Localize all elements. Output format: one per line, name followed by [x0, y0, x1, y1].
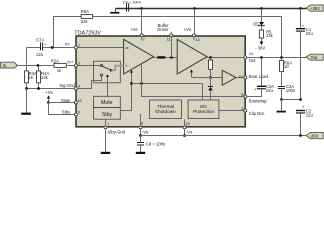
node junction rail to pin13 [193, 7, 196, 10]
wire signal ground line to pin 4 [27, 83, 76, 89]
capacitor C8 100n [137, 136, 166, 152]
node In- junction [51, 46, 54, 49]
svg-text:-Vs: -Vs [142, 129, 148, 134]
S/C protection block [188, 100, 219, 119]
svg-text:22u: 22u [266, 88, 274, 93]
svg-text:22k: 22k [41, 75, 49, 80]
wire buffer output to power amp [154, 57, 178, 59]
buffer driver series element [157, 56, 165, 58]
wire output line [247, 57, 305, 59]
label Stby [62, 109, 71, 114]
svg-text:Stby: Stby [102, 112, 113, 118]
svg-text:100n: 100n [286, 88, 296, 93]
node junction rail to D5 [260, 7, 263, 10]
svg-text:In-: In- [65, 42, 70, 47]
svg-text:R9A: R9A [81, 9, 89, 14]
svg-text:- 36V: - 36V [255, 46, 265, 51]
node supply cap midpoint [299, 98, 302, 101]
svg-text:22k: 22k [266, 33, 274, 38]
capacitor C7A 22u [36, 38, 47, 58]
wire stby line to pin 9 [49, 103, 76, 115]
svg-text:-36V: -36V [310, 134, 319, 139]
svg-text:C8 = 100n: C8 = 100n [146, 142, 166, 147]
svg-text:TDA7293V: TDA7293V [74, 30, 101, 36]
svg-text:6: 6 [241, 92, 243, 97]
svg-text:Sig-Gnd: Sig-Gnd [59, 83, 75, 88]
connector In [1, 62, 18, 68]
pin 7 +Vs (top) [130, 27, 145, 41]
wire rail to pin 13 +Vs [194, 9, 196, 35]
op-amp U2 power amplifier [177, 39, 207, 74]
wire mute line to pin 10 [49, 102, 76, 104]
feedback wire from Out to R9A and In- [54, 17, 282, 58]
wire C1 to mid ground node [300, 32, 302, 100]
capacitor C2A 22u (bootstrap) [247, 58, 274, 97]
svg-text:Driver: Driver [157, 27, 169, 32]
svg-text:22u: 22u [306, 31, 314, 36]
svg-text:Out: Out [249, 58, 257, 63]
svg-text:Shutdown: Shutdown [155, 109, 176, 114]
wire bias tap to buffer and bootstrap line [142, 64, 246, 97]
svg-text:C6 + 100n: C6 + 100n [123, 0, 141, 5]
wire pin 11 to buffer output [171, 37, 173, 57]
connector -36V [306, 132, 323, 138]
node R4A foot [37, 87, 40, 90]
op-amp IC body TDA7293V [76, 36, 245, 127]
wire C7A branch down to R3A (crosses input line) [26, 48, 28, 71]
node pin 15 to -Vs rail [183, 134, 186, 137]
power flag +Vs (mute/stby pull-up) [45, 90, 52, 102]
svg-text:3: 3 [78, 60, 80, 65]
node output to bootstrap cap [260, 56, 263, 59]
stby switch S2 [101, 74, 103, 76]
svg-text:11: 11 [167, 37, 171, 42]
ground (pin 8 decoupling) [136, 152, 145, 154]
wire stby block to bias rail [120, 70, 133, 111]
pin 15 -Vs (bottom) [183, 119, 192, 135]
label Out (pin) [249, 58, 257, 63]
svg-text:Mute: Mute [101, 100, 113, 106]
svg-text:+Vs: +Vs [45, 90, 52, 95]
capacitor C3A 100n (zobel) [278, 72, 296, 100]
svg-text:C7A: C7A [36, 38, 44, 43]
op-amp U3 bootstrap buffer [211, 70, 236, 85]
resistor R5 22k [259, 29, 273, 38]
thermal shutdown block [150, 100, 182, 119]
node internal sense junction [209, 76, 212, 79]
resistor R3A 1k [25, 71, 37, 83]
capacitor C1 22u [296, 23, 314, 36]
node junction rail to C1 [299, 7, 302, 10]
stby block [94, 108, 121, 120]
op-amp U1 input buffer [124, 39, 154, 74]
ground (C6 decoupling) [110, 9, 119, 14]
wire D5 to R5 [261, 26, 263, 30]
svg-text:D5: D5 [253, 21, 259, 26]
ground (zobel/supply) [277, 100, 286, 113]
label Sig-Gnd [59, 83, 75, 88]
wire S/C block to pin 5 [219, 110, 245, 112]
pin 10 Mute [74, 98, 82, 104]
svg-text:22u: 22u [306, 112, 314, 117]
label In+ [67, 59, 73, 64]
node bias rail tap 2 [140, 82, 143, 85]
node pin 11 tap [170, 56, 173, 59]
node internal output tap [209, 56, 212, 59]
resistor R6A 10 (zobel) [280, 58, 293, 72]
svg-text:Clip Det.: Clip Det. [249, 111, 265, 116]
pin 8 -Vs (bottom) [139, 114, 148, 136]
switch box [94, 61, 121, 83]
pin 13 +Vs (top) [184, 27, 200, 42]
pin 6 Bootstrap [241, 92, 267, 103]
node junction rail to pin7 [140, 7, 143, 10]
wire sense node to bias arrow [192, 77, 211, 79]
svg-text:5: 5 [241, 106, 243, 111]
resistor R2A 1k (series input) [51, 59, 66, 73]
node input junction to R4A [37, 64, 40, 67]
wire mid ground link [282, 99, 301, 101]
svg-text:R2A: R2A [51, 59, 59, 64]
svg-text:Out: Out [311, 55, 319, 60]
node pin 8 to -Vs rail [139, 134, 142, 137]
bias arrow into power amp [190, 69, 193, 77]
internal diode (protection) [208, 78, 213, 101]
mute control arrow [106, 74, 109, 96]
resistor R9A 22k (feedback) [81, 9, 93, 24]
svg-text:9: 9 [78, 110, 80, 115]
wire -Vs bottom rail [141, 135, 306, 137]
node mute/stby junction [47, 101, 50, 104]
diode D5 (zener) [253, 21, 265, 26]
wire rail to diode D5 [261, 9, 263, 23]
ground (input network) [21, 113, 31, 115]
svg-text:22k: 22k [81, 19, 89, 24]
svg-text:12: 12 [239, 74, 243, 79]
pin 12 Boot Load [239, 74, 269, 79]
pin 11 Buffer Driver (top) [157, 23, 172, 41]
svg-text:Protection: Protection [193, 109, 214, 114]
wire to ground from signal ground line [26, 89, 28, 113]
wire rail to pin 7 +Vs [141, 9, 143, 35]
mute switch S1 [101, 65, 124, 72]
pin 2 In- [74, 43, 80, 49]
node bias rail tap 1 [130, 82, 133, 85]
pin 14 Out [244, 51, 254, 59]
capacitor C2 22u [296, 104, 314, 135]
connector Out [306, 54, 323, 60]
svg-text:Stby-Gnd: Stby-Gnd [107, 129, 125, 134]
wire pin 4 to stby switch [78, 76, 102, 88]
connector +36V [306, 5, 323, 11]
wire In- line [27, 47, 76, 49]
svg-text:8: 8 [141, 121, 143, 126]
internal resistor (S/C sense) [209, 58, 213, 78]
pin 3 In+ [74, 60, 80, 67]
IC label TDA7293V [74, 30, 101, 36]
svg-text:Mute: Mute [61, 98, 71, 103]
svg-text:13: 13 [195, 37, 199, 42]
wire U3 to pin 12 [236, 77, 245, 79]
svg-text:-Vs: -Vs [186, 130, 192, 135]
mute block [94, 96, 121, 107]
capacitor C6 100n [123, 0, 141, 12]
pin 9 Stby [74, 110, 80, 117]
label Mute [61, 98, 71, 103]
svg-text:+Vs: +Vs [184, 27, 191, 32]
svg-text:1: 1 [107, 121, 109, 126]
svg-text:+Vs: +Vs [130, 27, 137, 32]
wire pin2 to op-amp [78, 47, 124, 49]
svg-text:22u: 22u [36, 52, 44, 57]
node output to feedback/zobel [280, 56, 283, 59]
ground (pin 1) [101, 152, 110, 154]
svg-text:Bootstrap: Bootstrap [249, 98, 268, 103]
node R3A foot [25, 87, 28, 90]
svg-text:In+: In+ [67, 59, 73, 64]
svg-text:15: 15 [185, 121, 189, 126]
svg-text:Stby: Stby [62, 109, 71, 114]
node C2 to -Vs rail [299, 134, 302, 137]
pin 5 Clip Det [241, 106, 264, 116]
svg-text:+36V: +36V [310, 6, 320, 11]
node zobel ground [280, 98, 283, 101]
svg-text:7: 7 [143, 37, 145, 42]
wire internal bias rail [132, 83, 203, 85]
wire bias rail to S/C block [202, 84, 204, 101]
resistor R4A 22k [37, 66, 50, 83]
wire power amp output to pin 14 [207, 57, 245, 59]
pin 1 Stby-GND (bottom) [104, 119, 126, 152]
power flag -36V below R5 [255, 38, 265, 51]
label In- [65, 42, 70, 47]
wire pin3 to mute switch [78, 65, 101, 67]
wire rail to capacitor C1 [300, 9, 302, 29]
svg-text:+: + [125, 64, 128, 69]
svg-text:Boot Load: Boot Load [249, 74, 269, 79]
wire input line [18, 65, 54, 67]
wire +Vs top rail [116, 8, 307, 10]
wire R2A to pin 3 [66, 65, 75, 67]
pin 4 Sig-Gnd [74, 83, 80, 90]
svg-text:10: 10 [284, 64, 289, 69]
